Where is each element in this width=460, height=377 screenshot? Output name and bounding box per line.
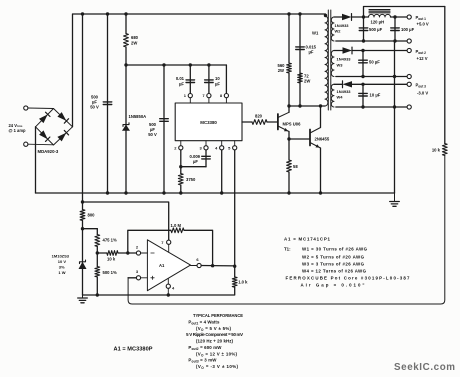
wire 10k to pin2: [118, 252, 136, 254]
wire +V to bias: [82, 14, 84, 210]
svg-text:(VO = -3 V ± 10%): (VO = -3 V ± 10%): [196, 364, 239, 370]
node junction return2 x=363: [361, 75, 364, 78]
svg-text:3: 3: [199, 146, 202, 151]
node junction return3 x=363: [361, 105, 364, 108]
svg-text:1: 1: [184, 93, 187, 98]
wire 680 to IC rail corner: [125, 47, 127, 65]
node junction zener top: [81, 227, 84, 230]
label 58: [293, 164, 298, 169]
diode D1 1N4933 (W2): [342, 14, 352, 21]
svg-text:10: 10: [215, 76, 220, 81]
svg-text:8: 8: [220, 93, 223, 98]
svg-text:2W: 2W: [131, 41, 137, 46]
svg-text:MC3380: MC3380: [200, 120, 217, 125]
label 24 Vrms @ 1 amp: [9, 123, 26, 133]
capacitor C2 500uF 50V line: [163, 65, 165, 193]
svg-text:SeekIC.com: SeekIC.com: [394, 362, 455, 373]
wire tap down: [96, 229, 98, 235]
svg-text:Pout 3: Pout 3: [416, 83, 427, 89]
label 3750: [186, 177, 196, 182]
node junction divider mid: [96, 251, 99, 254]
svg-text:120 µH: 120 µH: [371, 20, 385, 25]
label Pout1 +5.0V: [416, 15, 429, 27]
capacitor 10uF line pin7: [208, 65, 210, 93]
diode D3 1N4933 (W4) reversed: [343, 81, 353, 88]
label 1N4933 W3: [337, 57, 352, 68]
label 500 uF 50 V (C2): [148, 122, 157, 137]
svg-text:1N5850A: 1N5850A: [129, 114, 147, 119]
svg-text:W3 = 3 Turns of #26 AWG: W3 = 3 Turns of #26 AWG: [302, 262, 365, 267]
wire 1.0M feedback: [128, 230, 213, 265]
node junction IC rail x=164: [162, 63, 165, 66]
resistor 58: [287, 160, 292, 172]
svg-text:1.0 M: 1.0 M: [171, 223, 182, 228]
node junction ground rail x=164: [162, 191, 165, 194]
wire bridge negative to ground rail: [35, 127, 37, 193]
svg-text:W1 = 30 Turns of #26 AWG: W1 = 30 Turns of #26 AWG: [302, 247, 368, 252]
svg-text:µF: µF: [179, 82, 184, 87]
pin 5: [228, 141, 237, 151]
node junction bottom rail x=97.3: [96, 293, 99, 296]
op-amp pin 7 supply: [161, 240, 171, 253]
svg-text:1N4933: 1N4933: [337, 89, 352, 94]
svg-text:+12 V: +12 V: [417, 56, 428, 61]
node junction top rail x=82.5: [81, 12, 84, 15]
wire 58 to ground: [288, 172, 290, 193]
node junction ground rail x=221.7: [220, 191, 223, 194]
svg-text:1N4933: 1N4933: [337, 57, 352, 62]
inductor core bars: [369, 10, 390, 13]
svg-text:1 W: 1 W: [58, 270, 65, 275]
label 1.0 M: [171, 223, 182, 228]
wire 3750 to ground: [180, 185, 182, 193]
op-amp A1 MC1741: [147, 240, 190, 291]
label W1: [312, 31, 319, 36]
wire common return: [394, 41, 396, 193]
svg-text:2W: 2W: [278, 68, 284, 73]
node junction top rail x=300: [298, 12, 301, 15]
resistor 10k input: [107, 251, 118, 256]
svg-text:W4 = 12 Turns of #26 AWG: W4 = 12 Turns of #26 AWG: [302, 269, 367, 274]
svg-text:(VO = 12 V ± 10%): (VO = 12 V ± 10%): [196, 351, 238, 357]
svg-text:Pout3 = 3 mW: Pout3 = 3 mW: [188, 358, 217, 364]
svg-text:3750: 3750: [186, 177, 196, 182]
resistor 820: [252, 120, 267, 125]
wire top +V rail: [73, 13, 326, 15]
label 100 uF: [401, 27, 415, 32]
label 475 1%: [103, 238, 117, 243]
resistor 475 1%: [95, 235, 100, 247]
node junction ground rail x=289: [287, 191, 290, 194]
bridge rectifier MDA920-3: [36, 109, 73, 146]
svg-text:W1: W1: [312, 31, 319, 36]
op-amp pin 2 input: [136, 244, 148, 255]
node B output1: [393, 15, 396, 18]
label 0.009 uF: [190, 154, 201, 164]
wire W3 top lead: [334, 50, 343, 52]
transformer T1 secondary W3: [331, 51, 334, 77]
svg-text:500 1%: 500 1%: [103, 270, 117, 275]
svg-text:Air Gap = 0.010": Air Gap = 0.010": [301, 282, 365, 287]
wire diode3 to Pout3: [352, 83, 407, 85]
svg-text:2: 2: [174, 146, 177, 151]
resistor 560 2W line with collector: [287, 14, 292, 112]
wire zener to bottom rail: [82, 269, 84, 295]
op-amp pin 4: [166, 279, 175, 296]
svg-text:W3: W3: [337, 63, 344, 68]
wire IC output: [242, 121, 252, 123]
op-amp pin 6 output: [191, 257, 202, 268]
op-amp U1 MC3380 regulator IC: [175, 103, 242, 141]
capacitor 0.01uF: [186, 80, 195, 83]
resistor 3750: [178, 174, 183, 186]
capacitor 10uF: [205, 80, 214, 83]
capacitor 0.009uF line: [205, 150, 207, 167]
svg-text:A1: A1: [159, 263, 165, 268]
node junction ground rail x=126: [124, 191, 127, 194]
label SeekIC.com watermark: [394, 362, 455, 373]
pin 1: [184, 93, 193, 103]
node junction top rail x=107.5: [106, 12, 109, 15]
wire pin 4 to ground: [221, 150, 223, 193]
svg-text:-3.0 V: -3.0 V: [417, 91, 428, 96]
node junction out2 cap: [361, 49, 364, 52]
inductor 120uH: [369, 14, 391, 17]
svg-text:100 µF: 100 µF: [401, 27, 415, 32]
wire divider to pin2: [97, 252, 107, 254]
svg-text:1.0 k: 1.0 k: [238, 280, 248, 285]
node junction return1 x=395: [393, 39, 396, 42]
wire output1 return rail: [336, 40, 407, 42]
wire IC supply rail: [126, 64, 226, 66]
svg-text:500 µF: 500 µF: [369, 27, 383, 32]
capacitor C1 500uF 50V: [103, 102, 112, 105]
svg-text:1N4933: 1N4933: [335, 23, 350, 28]
node junction output x=212.6: [211, 264, 214, 267]
wire 820 to base: [267, 121, 277, 123]
op-amp pin 3 input: [136, 269, 148, 280]
svg-text:MDA920-3: MDA920-3: [38, 149, 59, 154]
label 500 uF out: [369, 27, 383, 32]
node junction IC rail x=208.9: [207, 63, 210, 66]
svg-text:W2: W2: [335, 29, 342, 34]
label MDA920-3: [38, 149, 59, 154]
wire inductor to Pout1: [391, 16, 408, 18]
svg-text:µF: µF: [309, 50, 314, 55]
wire pin2-pin3 link: [181, 166, 206, 168]
wire feedback right lower: [128, 156, 445, 305]
svg-text:2N6455: 2N6455: [315, 137, 330, 142]
svg-text:10 k: 10 k: [432, 148, 441, 153]
label Pout2 +12V: [416, 49, 428, 61]
capacitor 10uF out: [359, 93, 368, 96]
terminal return 2: [407, 74, 411, 78]
svg-text:7: 7: [202, 93, 205, 98]
svg-text:FERROXCUBE Pot Core #3019P-L00: FERROXCUBE Pot Core #3019P-L00-387: [286, 276, 411, 281]
node A +5V sense: [362, 15, 365, 18]
pin 8: [220, 93, 229, 103]
capacitor C1 500uF 50V line: [107, 14, 109, 193]
node junction bias/pin7: [81, 200, 84, 203]
svg-text:(VO = 5 V ± 5%): (VO = 5 V ± 5%): [196, 326, 232, 332]
terminal AC input top: [24, 106, 54, 110]
svg-text:MPS U06: MPS U06: [283, 121, 302, 126]
capacitor 10uF out line: [362, 84, 364, 107]
node junction output x=234.7: [233, 265, 236, 268]
capacitor 100uF: [391, 28, 400, 31]
svg-text:475 1%: 475 1%: [103, 238, 117, 243]
label 2N6455: [315, 137, 330, 142]
terminal Pout2: [407, 48, 411, 52]
pin 3: [199, 141, 208, 151]
svg-text:50 µF: 50 µF: [369, 60, 380, 65]
wire 475 to node: [96, 247, 98, 267]
wire collector rail: [289, 105, 325, 107]
label 820: [255, 114, 263, 119]
label 500 1%: [103, 270, 117, 275]
label 10 k input: [107, 257, 116, 262]
diode D2 1N4933 (W3): [343, 47, 353, 54]
svg-text:Pout1 = 4 Watts: Pout1 = 4 Watts: [188, 319, 220, 325]
node junction pin2 feedback: [126, 251, 129, 254]
zener diode 1N5850A line: [125, 65, 127, 193]
wire 500 to bottom rail: [96, 277, 98, 295]
node junction top rail x=325: [324, 14, 327, 17]
label 10 k: [432, 148, 441, 153]
resistor 800: [80, 210, 85, 221]
label 1N4933 W2: [335, 23, 350, 34]
wire divider tap: [83, 228, 98, 230]
svg-text:1M10ZS3: 1M10ZS3: [52, 254, 70, 259]
wire bridge positive riser: [72, 14, 74, 127]
svg-text:(120 Hz + 20 kHz): (120 Hz + 20 kHz): [196, 339, 234, 344]
svg-text:10 µF: 10 µF: [370, 93, 381, 98]
svg-text:10 k: 10 k: [107, 257, 116, 262]
label 0.015 uF: [306, 45, 317, 55]
resistor 1.0k: [232, 277, 237, 287]
svg-text:7: 7: [161, 240, 164, 245]
terminal return 3: [407, 105, 411, 109]
label 50 uF: [369, 60, 380, 65]
ground symbol left: [78, 295, 88, 303]
capacitor 500uF output line: [363, 17, 365, 41]
resistor 10k feedback: [442, 144, 447, 156]
resistor 72 2W: [298, 73, 303, 83]
capacitor 0.01uF line pin1: [189, 65, 191, 93]
svg-text:680: 680: [131, 35, 139, 40]
node junction return3 x=394.5: [393, 105, 396, 108]
capacitor 50uF line: [362, 51, 364, 77]
svg-text:10 V: 10 V: [58, 259, 67, 264]
svg-text:A1 = MC1741CP1: A1 = MC1741CP1: [284, 237, 331, 242]
node junction bottom rail x=168.3: [167, 293, 170, 296]
capacitor 500uF output: [359, 28, 368, 31]
svg-text:4: 4: [172, 285, 175, 290]
terminal AC input bottom: [24, 142, 54, 146]
wire output3 return rail: [336, 106, 407, 108]
svg-text:6: 6: [196, 257, 199, 262]
node junction return1 x=363.5: [362, 39, 365, 42]
wire 800 to zener: [82, 221, 84, 262]
label 560 2W: [278, 63, 286, 73]
svg-text:Pout 1: Pout 1: [416, 15, 427, 21]
svg-text:820: 820: [255, 114, 263, 119]
resistor 680 2W line upper: [125, 14, 127, 34]
svg-text:W2 = 5 Turns of #20 AWG: W2 = 5 Turns of #20 AWG: [302, 254, 365, 259]
wire pin3 from feedback: [128, 277, 136, 279]
transformer T1 secondary W2: [331, 17, 334, 41]
svg-text:Pout 2: Pout 2: [416, 49, 427, 55]
node junction Q1 emitter: [287, 137, 290, 140]
label MPS U06: [283, 121, 302, 126]
wire diode to node A: [352, 16, 369, 18]
wire pin 2 down: [180, 150, 182, 174]
zener diode 1N5850A: [122, 123, 130, 131]
svg-text:µF: µF: [92, 99, 97, 104]
label 800: [88, 213, 96, 218]
svg-text:50 V: 50 V: [148, 132, 157, 137]
node junction top rail x=126: [124, 12, 127, 15]
capacitor 0.015uF line: [299, 14, 301, 106]
svg-text:µF: µF: [193, 159, 198, 164]
transformer T1 core: [328, 10, 331, 110]
svg-text:0.01: 0.01: [176, 76, 185, 81]
svg-text:TYPICAL PERFORMANCE: TYPICAL PERFORMANCE: [193, 313, 243, 318]
svg-text:800: 800: [88, 213, 96, 218]
terminal Pout1: [407, 15, 411, 19]
label Pout3 -3.0V: [416, 83, 429, 96]
wire op-amp output: [201, 265, 235, 267]
capacitor C2 500uF 50V: [160, 119, 169, 122]
wire W2 top lead: [334, 16, 342, 18]
label A1 = MC3380P: [114, 347, 153, 353]
label 10 uF out: [370, 93, 381, 98]
node junction collector rail x=289: [287, 104, 290, 107]
svg-text:5: 5: [228, 146, 231, 151]
label 10 uF: [215, 76, 220, 87]
label 500 uF 50 V (C1): [90, 94, 99, 109]
label 72 2W: [304, 74, 310, 84]
node junction collector rail x=300: [298, 104, 301, 107]
pin 4: [215, 141, 224, 151]
label transformer spec block: [284, 237, 410, 288]
wire output2 return rail: [336, 76, 407, 78]
svg-text:@ 1 amp: @ 1 amp: [9, 128, 26, 133]
svg-text:50 V: 50 V: [90, 105, 99, 110]
label 1.0 k: [238, 280, 248, 285]
wire W4 top lead: [334, 83, 343, 85]
svg-text:Pout2 = 600 mW: Pout2 = 600 mW: [188, 345, 222, 351]
svg-text:2: 2: [136, 244, 139, 249]
capacitor 100uF line: [394, 17, 396, 41]
label 120 uH: [371, 20, 385, 25]
transformer T1 secondary W4: [331, 84, 334, 107]
wire diode2 to Pout2: [352, 50, 407, 52]
label 0.01 uF: [176, 76, 185, 87]
svg-text:µF: µF: [215, 82, 220, 87]
terminal return 1: [407, 39, 411, 43]
node junction top rail x=289: [287, 12, 290, 15]
svg-text:58: 58: [293, 164, 298, 169]
node junction IC rail x=126: [124, 63, 127, 66]
wire IC rail to pin 8: [225, 65, 227, 93]
wire pin 5 to op-amp output: [234, 150, 236, 267]
terminal Pout3: [407, 82, 411, 86]
svg-text:2W: 2W: [304, 79, 310, 84]
label 1N5850A: [129, 114, 147, 119]
capacitor 50uF: [359, 60, 368, 63]
wire ground rail: [36, 192, 395, 194]
capacitor 0.009uF: [202, 156, 211, 159]
svg-text:+5.0 V: +5.0 V: [417, 22, 429, 27]
capacitor 0.015uF: [296, 47, 305, 50]
zener diode 1M10ZS3: [79, 260, 87, 269]
svg-text:3%: 3%: [59, 265, 65, 270]
node junction out3 cap: [361, 83, 364, 86]
resistor 1.0M: [171, 228, 184, 233]
transistor Q2 2N6455: [310, 106, 321, 193]
node junction collector rail x=320.5: [319, 104, 322, 107]
resistor 680 2W: [124, 34, 129, 48]
label 680 2W: [131, 35, 139, 46]
svg-text:3: 3: [136, 269, 139, 274]
svg-text:5 V Ripple Component = 50 mV: 5 V Ripple Component = 50 mV: [186, 332, 243, 337]
wire feedback right upper: [444, 7, 446, 144]
pin 2: [174, 141, 183, 151]
transformer T1 primary W1: [325, 14, 328, 106]
node junction ground rail x=180.8: [179, 191, 182, 194]
pin 7: [202, 93, 211, 103]
transistor Q1 MPS U06: [278, 112, 289, 131]
wire 1.0k to bottom rail: [83, 287, 235, 295]
wire feedback top: [364, 7, 445, 18]
node junction ground rail x=320.5: [319, 191, 322, 194]
svg-text:A1 = MC3380P: A1 = MC3380P: [114, 347, 153, 353]
label 1M10ZS3 10V 3% 1W: [52, 254, 70, 276]
label typical performance block: [186, 313, 243, 370]
label 1N4933 W4: [337, 89, 352, 100]
wire Q1 emitter to Q2 base: [289, 132, 310, 161]
node junction return2 x=394.5: [393, 75, 396, 78]
wire output to 1.0k: [234, 266, 236, 277]
node junction ground rail x=107.5: [106, 191, 109, 194]
node junction pin2/pin3 net: [179, 165, 182, 168]
wire op-amp V+ supply: [83, 202, 169, 240]
ground symbol right: [390, 193, 400, 206]
svg-text:W4: W4: [337, 95, 344, 100]
svg-text:4: 4: [215, 146, 218, 151]
svg-text:T1:: T1:: [284, 247, 291, 252]
node junction IC rail x=190.3: [189, 63, 192, 66]
resistor 500 1%: [95, 267, 100, 278]
